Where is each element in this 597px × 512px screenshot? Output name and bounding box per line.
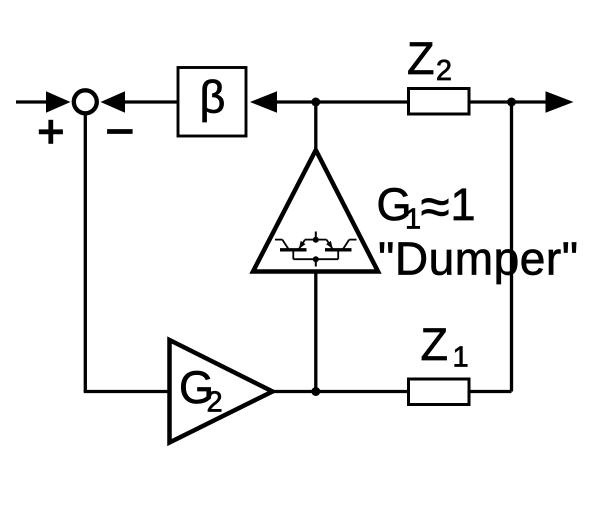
svg-text:Z: Z (407, 33, 435, 84)
arrowhead input into summer (46, 91, 71, 113)
wire node A to beta arrow (273, 100, 316, 103)
node A (311, 98, 320, 107)
wire transistor output stub (315, 259, 317, 266)
svg-text:1: 1 (405, 204, 421, 236)
resistor Z2 (409, 89, 470, 115)
wire Z1 to right corner (469, 390, 512, 393)
svg-text:≈: ≈ (421, 178, 450, 237)
svg-text:Z: Z (421, 319, 449, 370)
block beta box (178, 68, 246, 137)
transistor Q2 right (316, 240, 357, 260)
wire node A to Z2 (316, 100, 409, 103)
wire transistor bottom bus (293, 258, 338, 260)
wire node A down to G1 apex (314, 102, 317, 152)
wire summer down left side (84, 113, 87, 392)
wire bottom left to G2 (84, 390, 170, 393)
wire node C to Z1 (316, 390, 409, 393)
node transistor top (313, 237, 319, 243)
arrowhead Q2 emitter (326, 241, 333, 249)
node B (507, 98, 516, 107)
node C (311, 387, 320, 396)
svg-text:2: 2 (436, 55, 452, 87)
label plus (39, 120, 63, 144)
wire G1 base down to node C (314, 272, 317, 392)
arrowhead into beta block (250, 91, 277, 113)
wire right side up to node B (510, 102, 513, 392)
wire G2 to node C (273, 390, 316, 393)
label minus (107, 129, 133, 134)
op-amp U1 buffer triangle G1 (253, 150, 378, 272)
arrowhead output (546, 91, 574, 113)
svg-text:1: 1 (453, 342, 469, 374)
node transistor bottom (313, 256, 319, 262)
arrowhead Q1 emitter (299, 241, 306, 249)
wire transistor input stub (315, 232, 317, 241)
svg-text:2: 2 (207, 386, 223, 418)
wire Z2 to node B (469, 100, 547, 103)
svg-text:"Dumper": "Dumper" (378, 233, 579, 285)
transistor Q1 left (275, 240, 316, 260)
resistor Z1 (409, 379, 470, 405)
wire input left (16, 100, 50, 103)
svg-text:1: 1 (451, 179, 476, 230)
summing junction S1 (74, 90, 97, 113)
arrowhead from beta into summer (101, 91, 126, 113)
svg-text:β: β (200, 72, 226, 123)
amp G2 triangle (170, 340, 273, 443)
wire summer to beta block (123, 100, 178, 103)
